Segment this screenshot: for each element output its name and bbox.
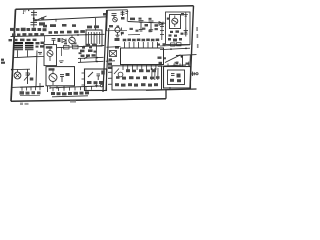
small mark right of 22 [164,57,167,59]
small mark right of label [117,25,120,27]
transistor Q6 arrow [84,56,89,60]
label on output bus [130,18,152,21]
IC U1 labels [87,25,99,28]
output terminal circle [196,73,198,75]
transistor Q5 [47,51,53,57]
mid cluster blobs [79,44,97,57]
wire to driver box [37,56,44,58]
lamp leads [17,69,19,72]
top middle box oscillator right edge [126,10,128,22]
transistor Q7 leads [51,71,56,86]
diode D6 [159,22,163,26]
transformer TR1 winding block right [25,42,34,50]
output stage box outer [166,12,191,45]
resistor R2 blob [58,38,61,42]
capacitor C3 [121,11,125,16]
switch S1 contact bars [31,22,38,24]
relay coil blob [177,74,181,78]
resistor R7 [73,45,79,49]
transformer TR1 bottom lead 1 [17,50,19,57]
label small equals marks [126,12,129,14]
terminal circle bottom [100,84,102,86]
dark component top right of control box [101,71,105,75]
junction dot on left border [11,69,13,71]
stub on right output lead [191,55,193,59]
transistor Q2 [69,37,75,43]
relay K1 cross lines [110,51,117,57]
IC U1 internal pins [89,32,100,44]
box A1 bottom pins [50,86,64,89]
bottom row left group wire [20,86,44,89]
capacitor C6 [184,28,188,37]
resistor R8 blob [66,73,70,76]
node A junction dot [33,17,35,19]
wire mid bus 2 [78,61,103,62]
label T inside box [181,13,184,15]
output terminal wire [191,73,197,75]
bottom row divider tick [47,86,49,92]
top middle box oscillator bottom edge [107,29,127,32]
wire ground return horizontal [146,89,197,90]
transistor Q9 [118,72,123,77]
relay box K2 outer [164,67,191,89]
resistor labels above [64,42,77,44]
capacitor C4 [139,21,144,31]
wires divider to A3 [108,72,112,84]
resistor R10 outline on upper bus [171,43,176,46]
junction dots mid buses [96,57,98,63]
control box blobs [87,81,103,84]
capacitor C7 bars [175,62,179,64]
output board box A3 [112,66,162,90]
thyristor V1 arrow [24,74,30,81]
capacitor C2 [112,14,117,18]
external label marks left margin [1,59,5,64]
switch S2 junction dot [181,56,183,58]
wire feedback bus upper [160,45,190,46]
wire driver output [57,46,105,48]
wire from transformer down left border [13,50,37,58]
IC2 top pins [125,42,158,48]
A3 middle row blobs [116,76,160,79]
wire stub below driver output [61,48,63,56]
output terminal capacitor bar 1 [191,72,193,76]
lamp L1 [14,72,21,79]
transistor Q4 leads [173,16,177,28]
output terminal capacitor bar 2 [193,72,195,75]
small blob above K2 [176,62,179,64]
bottom row underline wire [52,96,88,97]
top middle box oscillator left edge [106,10,109,31]
A3 bottom row blobs [115,83,158,86]
print bleed marks outside right border [196,27,198,48]
svg-text:F: F [22,10,27,16]
component row blobs right of rectifier [49,30,85,34]
IC2 main controller box [121,48,164,65]
junction dot driver output [83,46,85,48]
wire divider to IC2 [107,46,121,49]
stub between mid buses [80,58,82,62]
transformer TR1 bottom lead 2 [27,50,29,57]
bottom row right group stems [53,86,92,91]
thyristor V1 bars [26,73,30,75]
resistor R6 [64,45,70,49]
wire from bus up to regulator [95,18,97,30]
wire stub on mains bus [55,19,57,22]
label R1 left of box [103,13,106,16]
amplifier A1 label [49,68,55,70]
capacitor C10 [97,74,101,80]
label blobs left of upper bus [157,43,166,46]
transistor Q3 [113,17,118,22]
winding labels text row [9,39,37,42]
wire mains bus to top box [35,17,107,21]
K2 top pins [168,64,180,67]
wire divider lower stub [106,60,115,62]
label near lower right bus [159,62,163,65]
thyristor V1 label [30,78,34,81]
resistor R3 blob [121,17,125,20]
relay box K2 inner [168,70,185,85]
transistor Q10 below box [115,27,120,32]
wire right border stub [189,55,192,67]
K2 inner blobs [170,79,181,82]
marks above K2 box [186,63,189,65]
stub up from bottom left bus [39,83,41,86]
capacitor C9 [60,75,64,82]
output stage box inner [170,15,181,29]
component row blobs D1-D4 [12,33,44,36]
switch S1 lever [35,16,47,21]
ground symbol under driver area [59,61,64,63]
transistor Q3 inner mark [114,18,117,20]
wire right output lead [176,54,197,57]
capacitor C4 label [145,24,149,27]
label right of Q10 [121,32,124,34]
IC2 bottom pins [123,65,156,71]
wire junction dots on secondary bus [77,34,96,36]
transistor Q8 arrow [88,72,93,77]
label 22 mid right [158,57,162,59]
wire to lamp [12,68,31,70]
A3 right hatch strokes [152,68,158,80]
switch S1 contact blob [33,19,37,21]
transformer TR1 winding block left [15,42,24,50]
divider second line [106,28,109,90]
label diode types text [43,24,76,27]
wire ground return tick [169,87,171,90]
capacitor C12 bars [116,35,120,37]
dashed stub left of IC2 [121,28,123,36]
bottom row left group underline [20,94,40,97]
IC2 side labels [115,38,120,49]
label 220V text row [10,28,47,32]
A3 top row blobs [126,69,156,72]
tick above K2 box [188,62,190,67]
control box A2 [85,69,107,91]
capacitor C1 electrolytic [52,39,56,45]
thyristor V1 stem [27,69,29,84]
wire secondary bus [11,34,105,36]
blob on switch lever [41,17,44,19]
wire feedback bus lower [160,48,190,49]
diode D5 [62,39,66,43]
bottom row right group wire [50,86,100,88]
wire bottom left bus [11,86,44,87]
capacitor C5 [149,21,154,31]
transistor Q4 [172,18,178,24]
relay K1 box with cross [110,51,117,57]
resistor R11 outline on upper bus [177,43,182,46]
junction dot on feedback bus [170,48,172,50]
capacitor C5 label [155,24,159,27]
wire vertical mid-left [36,51,37,87]
wire stub left of IC2 top [128,34,140,36]
scattered value labels mid top [130,28,158,33]
caption text below frame [20,101,76,105]
lamp L1 cross [15,73,20,78]
fuse rating superscript [28,9,29,12]
label 4a under Q3 [109,25,113,27]
bottom row right group blobs [51,91,89,95]
transformer TR1 labels [36,42,45,48]
transistor Q5 leads [48,48,52,62]
capacitor C6 extra bar [184,33,188,35]
driver box Q5 [44,45,57,66]
transistor Q10 stem [117,32,119,35]
control box left pins [82,73,85,85]
transistor Q9 arrow [114,69,119,75]
wire stub below secondary bus [44,36,46,42]
transistor Q2 leads [70,35,74,46]
driver box label [46,46,53,48]
amplifier box A1 [46,67,75,86]
fuse F1 body [31,10,37,28]
top middle box oscillator top edge [108,9,128,11]
wire ground return step vertical [165,90,167,99]
capacitor C13 upper right chain [184,13,188,28]
divider line section boundary [103,10,107,92]
bottom row left group capacitors [22,86,40,90]
wire mid bus 1 [78,57,104,58]
transistor Q7 [49,74,57,82]
plus terminal mark [95,84,98,87]
wire lower right bus [158,65,186,66]
switch S2 lever diagonal [165,55,181,63]
junction dot right on feedback bus [185,48,187,50]
wire vertical through mid cluster [95,44,98,62]
node dot inside box [167,18,169,20]
capacitor C11 [171,74,175,76]
switch S1 label [39,22,45,25]
IC regulator U1 box [86,30,102,46]
wire down from switch [182,55,184,66]
wire oscillator output bus [128,22,166,24]
resistor blobs in output box [168,30,184,41]
IC2 top pin labels [123,39,160,42]
resistor chain left in output box [160,24,164,40]
bottom row left group blobs [20,91,41,94]
blobs right of divider [108,58,112,69]
capacitor C8 [38,52,42,54]
transformer TR1 hatch gaps [15,44,34,49]
